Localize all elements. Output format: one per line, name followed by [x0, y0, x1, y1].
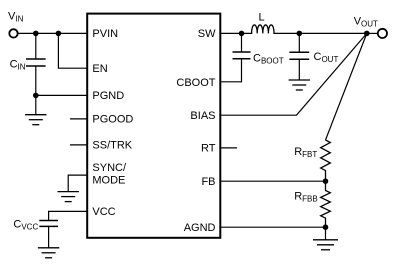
wire FB: [220, 180, 325, 182]
ground under AGND: [313, 240, 338, 250]
wire PGND node to ground: [35, 95, 37, 114]
wire CBOOT to pin: [220, 59, 241, 82]
node junction COUT: [297, 31, 303, 37]
capacitor COUT: [289, 52, 309, 59]
wire CVCC to ground: [48, 226, 50, 247]
svg-text:AGND: AGND: [184, 222, 216, 234]
svg-text:PVIN: PVIN: [92, 28, 118, 40]
svg-text:PGOOD: PGOOD: [92, 113, 133, 125]
svg-text:CBOOT: CBOOT: [176, 77, 215, 89]
wire SYNC/MODE to ground: [68, 175, 87, 192]
svg-text:SYNC/: SYNC/: [92, 162, 127, 174]
capacitor CBOOT: [233, 52, 251, 59]
svg-text:CVCC: CVCC: [13, 218, 38, 231]
inductor L: [242, 25, 367, 33]
wire VIN rail down to CIN: [35, 33, 37, 59]
svg-text:VIN: VIN: [8, 11, 24, 24]
svg-text:PGND: PGND: [92, 90, 124, 102]
svg-text:RT: RT: [201, 143, 216, 155]
node junction SW/CBOOT: [239, 31, 245, 37]
stub SS/TRK: [70, 144, 87, 146]
ground under SYNC/MODE: [57, 192, 78, 202]
node junction FB: [323, 178, 329, 184]
node junction EN on VIN rail: [56, 31, 62, 37]
terminal VIN: [9, 29, 17, 37]
ground under CVCC: [38, 248, 59, 258]
capacitor CIN: [26, 59, 46, 66]
ground under COUT: [289, 80, 310, 90]
wire BIAS to VOUT: [220, 33, 366, 115]
wire EN: [58, 33, 87, 68]
svg-text:VCC: VCC: [92, 206, 115, 218]
svg-text:BIAS: BIAS: [190, 110, 215, 122]
terminal VOUT: [378, 29, 387, 38]
stub PGOOD: [70, 118, 87, 120]
wire VCC to CVCC: [49, 211, 88, 220]
svg-text:L: L: [259, 12, 265, 24]
svg-text:COUT: COUT: [314, 51, 339, 64]
svg-text:VOUT: VOUT: [354, 15, 378, 28]
resistor RFBT: [321, 140, 331, 181]
svg-text:MODE: MODE: [92, 174, 125, 186]
wire VOUT to RFBT: [326, 33, 367, 140]
wire CIN to PGND node: [35, 66, 37, 95]
node junction PGND: [33, 93, 39, 99]
ground under CIN: [25, 115, 46, 125]
wire COUT node down: [298, 33, 300, 52]
svg-text:FB: FB: [201, 176, 215, 188]
resistor RFBB: [321, 181, 331, 227]
node junction CIN on VIN rail: [33, 31, 39, 37]
svg-text:SW: SW: [198, 28, 216, 40]
wire AGND node to ground: [325, 227, 327, 240]
svg-text:RFBB: RFBB: [294, 190, 318, 203]
node junction AGND: [323, 224, 329, 230]
wire PGND: [36, 94, 87, 96]
svg-text:CIN: CIN: [10, 59, 26, 72]
svg-text:RFBT: RFBT: [294, 146, 317, 159]
svg-text:EN: EN: [92, 63, 107, 75]
wire VOUT node to terminal: [367, 32, 378, 34]
capacitor CVCC: [39, 221, 58, 227]
wire SW to inductor: [220, 32, 241, 34]
stub RT: [220, 147, 237, 149]
wire COUT to ground: [298, 59, 300, 80]
svg-text:SS/TRK: SS/TRK: [92, 140, 132, 152]
node junction VOUT: [364, 31, 370, 37]
wire VIN rail to PVIN: [18, 32, 87, 34]
wire SW node down to CBOOT: [241, 33, 243, 52]
IC box U1: [87, 14, 220, 238]
wire AGND: [220, 226, 325, 228]
svg-text:CBOOT: CBOOT: [253, 52, 284, 65]
